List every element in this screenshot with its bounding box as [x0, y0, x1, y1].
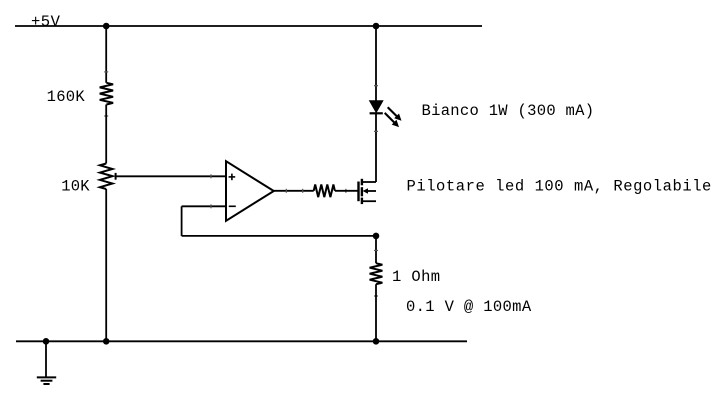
- pin tick: 160K bottom pin: [104, 115, 108, 117]
- MOSFET drain connection: [362, 181, 376, 183]
- pin tick: 1 Ohm bottom pin: [374, 295, 378, 297]
- transistor Q1 (N-MOSFET) gate bar: [357, 182, 359, 202]
- node C: junction dot feedback / MOSFET source: [373, 233, 380, 240]
- pin tick: op-amp output pin: [285, 189, 287, 193]
- +5V power rail: [15, 25, 482, 27]
- pin tick: op-amp - input pin: [210, 204, 212, 208]
- node D: junction dot left branch / ground rail: [103, 338, 110, 345]
- svg-text:Bianco 1W (300 mA): Bianco 1W (300 mA): [422, 102, 595, 120]
- node E: junction dot 1 Ohm / ground rail: [373, 338, 380, 345]
- wire: op-amp - input stub: [182, 205, 226, 207]
- wire: ground stub: [45, 341, 47, 377]
- LED light arrow 2: [385, 113, 395, 123]
- pin tick: 1 Ohm top pin: [374, 250, 378, 252]
- wire: +5V rail down to LED anode: [375, 26, 377, 101]
- op-amp - input symbol: [229, 205, 236, 207]
- svg-text:Pilotare led 100 mA, Regolabil: Pilotare led 100 mA, Regolabile: [407, 177, 712, 195]
- MOSFET channel segment (drain side): [361, 179, 363, 186]
- LED light arrow 1: [388, 107, 398, 117]
- pin tick: LED anode pin: [374, 85, 378, 87]
- ground symbol: [37, 376, 56, 378]
- feedback wire: horizontal segment to source node: [182, 235, 376, 237]
- wire: source node down to 1 Ohm resistor: [375, 236, 377, 263]
- pin tick: LED cathode pin: [374, 130, 378, 132]
- pin tick: gate resistor left pin: [302, 189, 304, 193]
- MOSFET channel segment (body middle): [361, 187, 363, 196]
- MOSFET source connection: [362, 200, 376, 202]
- node F: junction dot ground stub: [43, 338, 50, 345]
- svg-text:0.1 V @ 100mA: 0.1 V @ 100mA: [406, 298, 532, 316]
- ground rail: [16, 340, 467, 342]
- svg-text:10K: 10K: [61, 177, 90, 195]
- node B: junction dot at +5V rail / LED branch: [373, 23, 380, 30]
- svg-text:160K: 160K: [47, 88, 86, 106]
- pin tick: op-amp + input pin: [210, 174, 212, 178]
- svg-text:1 Ohm: 1 Ohm: [392, 268, 441, 286]
- LED D1 triangle: [370, 101, 383, 113]
- op-amp + input symbol: [229, 176, 236, 178]
- resistor R4 1 Ohm: [370, 263, 383, 284]
- wire: 1 Ohm to ground rail: [375, 284, 377, 341]
- wire: wiper to op-amp + input: [116, 175, 226, 177]
- MOSFET channel segment (source side): [361, 198, 363, 205]
- MOSFET body arrow: [363, 188, 368, 193]
- wire: gate resistor to MOSFET gate: [335, 190, 358, 192]
- resistor R3 (gate series): [314, 185, 335, 198]
- wire: op-amp output to gate resistor: [274, 190, 314, 192]
- resistor R1 160K: [100, 83, 113, 105]
- op-amp U1: [226, 161, 274, 221]
- pin tick: 160K top pin: [104, 71, 108, 73]
- wire: +5V rail down to 160K resistor: [105, 26, 107, 83]
- node A: junction dot at +5V rail / left branch: [103, 23, 110, 30]
- wire: MOSFET drain up to LED cathode: [375, 113, 377, 182]
- wire: left branch down to ground rail: [105, 189, 107, 341]
- pin tick: gate resistor right pin: [345, 189, 347, 193]
- LED D1 cathode bar: [370, 112, 383, 114]
- svg-text:+5V: +5V: [31, 13, 61, 31]
- potentiometer R2 10K: [100, 164, 113, 190]
- feedback wire: vertical segment on left: [181, 206, 183, 236]
- wire: 160K to 10K potentiometer: [105, 105, 107, 164]
- potentiometer wiper tick: [115, 173, 117, 180]
